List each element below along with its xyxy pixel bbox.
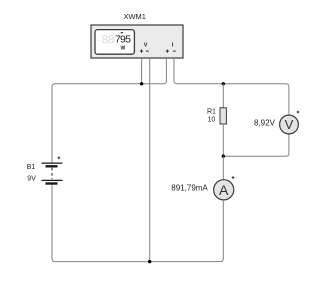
battery B1 plus polarity mark [58,157,61,160]
voltmeter [280,115,299,134]
wire resistor R1 bottom down to node C [222,124,224,156]
svg-text:B1: B1 [27,164,36,171]
wire battery positive up and right along top bus into wattmeter pin I+ [52,58,166,163]
svg-text:795: 795 [115,34,131,46]
wire wattmeter pin V+ down to node A [141,58,143,84]
svg-text:V: V [144,42,148,48]
wire voltmeter negative down and left to node C [223,134,289,156]
svg-text:W: W [121,46,126,52]
wattmeter XWM1 display [95,30,134,55]
ammeter [214,180,234,200]
voltmeter plus polarity mark [297,111,300,114]
wire ammeter bottom down and left along bottom bus to battery negative [52,184,223,262]
wattmeter XWM1 reading value 7,95 W [115,32,131,52]
wattmeter XWM1 I terminal marking [166,43,176,53]
node D junction of V- wire with bottom bus [148,260,151,263]
svg-text:A: A [219,182,229,198]
wire node C down to ammeter top [222,156,224,180]
resistor R1 [220,108,226,124]
node C junction of R1 bottom, voltmeter return and ammeter branch [222,155,225,158]
svg-text:891,79mA: 891,79mA [171,184,208,193]
svg-text:XWM1: XWM1 [123,12,146,21]
svg-text:V: V [285,117,294,132]
svg-text:10: 10 [208,116,216,123]
wire wattmeter pin V- straight down to node D on bottom bus [149,58,151,262]
node B junction of top bus with R1 branch [222,82,225,85]
svg-text:88: 88 [102,32,115,46]
wire wattmeter pin I- right along top bus to voltmeter positive terminal [174,58,289,115]
wattmeter XWM1 body [91,25,183,58]
battery B1 [42,163,63,183]
ammeter plus polarity mark [232,176,235,179]
node A junction of V+ with top bus [140,82,143,85]
wire node B down to resistor R1 top [222,84,224,108]
wattmeter XWM1 V terminal marking [140,42,149,52]
svg-text:9V: 9V [27,176,36,183]
svg-text:8,92V: 8,92V [254,118,276,127]
svg-text:R1: R1 [207,109,216,116]
